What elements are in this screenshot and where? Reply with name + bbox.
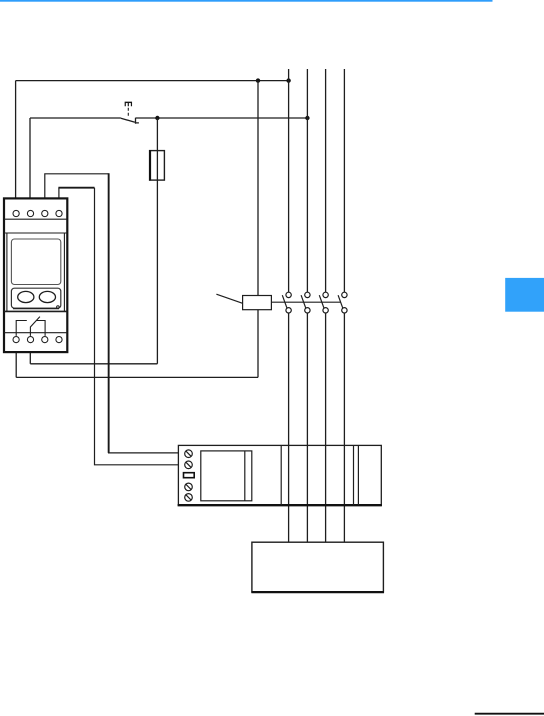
- contactor contact 1: [282, 292, 291, 313]
- wire L supply top: [16, 80, 289, 82]
- wire timer terminal 4 riser: [58, 188, 60, 198]
- timer relay contact NO side: [36, 321, 45, 336]
- timer terminal A2: [27, 337, 33, 343]
- PSU divider 3: [357, 445, 359, 505]
- timer top terminal row separator: [4, 218, 67, 220]
- contactor linkage line: [271, 301, 340, 303]
- PSU bottom thick edge: [178, 504, 382, 506]
- contactor coil pointer line: [216, 294, 242, 303]
- wire switched line right segment: [136, 117, 308, 119]
- switch S1 actuator dashed link: [127, 108, 129, 118]
- node junction fuse branch: [155, 116, 159, 120]
- contactor contact 2: [301, 292, 310, 313]
- fuse F1 left thick edge: [149, 150, 151, 181]
- contactor contact 3: [319, 292, 328, 313]
- wire load L2: [306, 313, 308, 542]
- timer U1 body: [4, 198, 67, 352]
- node junction coil branch: [256, 78, 260, 82]
- load box bottom thick edge: [251, 591, 384, 593]
- wire left drop to timer terminal 1: [15, 81, 17, 199]
- PSU screw terminal 1: [185, 450, 193, 458]
- timer relay contact NC side: [16, 321, 27, 336]
- wire phase L1: [288, 69, 290, 292]
- wire return to timer terminal A1: [16, 376, 258, 378]
- PSU screw terminal 4: [185, 494, 193, 502]
- page header blue bar: [0, 0, 493, 2]
- load box: [252, 542, 384, 592]
- switch S1 fixed contact tick: [136, 118, 139, 124]
- label m manual actuator: [125, 103, 131, 106]
- timer terminal 3: [42, 210, 48, 216]
- timer button 1: [18, 291, 34, 302]
- timer terminal 4: [56, 210, 62, 216]
- timer terminal 2: [27, 210, 33, 216]
- wire load L3: [325, 313, 327, 542]
- wire fuse to timer terminal A2: [30, 363, 157, 365]
- wire phase N: [343, 69, 345, 292]
- timer relay section separator: [4, 310, 67, 312]
- wire fuse branch: [156, 118, 158, 364]
- PSU U2 body: [178, 445, 381, 505]
- PSU screw terminal 2: [185, 461, 193, 469]
- wire switched line: [30, 117, 121, 119]
- PSU screw terminal 3: [185, 483, 193, 491]
- timer reset button: [57, 306, 60, 309]
- timer top band separator: [4, 232, 67, 234]
- wire coil bottom return: [257, 310, 259, 378]
- contactor coil K1: [243, 296, 272, 310]
- timer button panel: [11, 288, 60, 308]
- fuse F1: [150, 151, 165, 181]
- PSU divider 1: [280, 445, 282, 505]
- timer terminal 15: [42, 337, 48, 343]
- node junction phase L2: [305, 116, 309, 120]
- timer terminal 1: [13, 210, 19, 216]
- wire phase L3: [325, 69, 327, 292]
- timer button 2: [39, 291, 55, 302]
- PSU module window: [201, 451, 252, 501]
- wire timer terminal A2 drop: [29, 352, 31, 364]
- wire coil branch: [257, 81, 259, 296]
- wire timer terminal A1 drop: [15, 352, 17, 377]
- wire load L1: [288, 313, 290, 542]
- wire timer terminal 3 riser: [45, 174, 109, 198]
- side tab blue marker: [505, 278, 544, 312]
- PSU indicator window: [184, 473, 195, 478]
- wire load N: [343, 313, 345, 542]
- wire terminal 4 top run: [58, 187, 94, 189]
- wire terminal 3 into PSU in 1: [108, 452, 178, 454]
- timer terminal A1: [13, 337, 19, 343]
- timer terminal 18: [56, 337, 62, 343]
- wire phase L2: [306, 69, 308, 292]
- timer face left edge: [6, 233, 8, 311]
- wire left drop to timer terminal 2: [29, 118, 31, 199]
- PSU divider 2: [353, 445, 355, 505]
- wire terminal 4 down run: [95, 188, 179, 465]
- switch S1 blade: [121, 118, 135, 122]
- timer relay pole and blade: [30, 317, 40, 336]
- node junction phase L1: [286, 78, 290, 82]
- timer bottom terminal separator: [4, 332, 67, 334]
- PSU module window inner line: [244, 451, 246, 501]
- contactor contact 4: [338, 292, 347, 313]
- wire terminal 3 down run: [108, 173, 110, 453]
- timer display: [11, 239, 60, 285]
- footer rule: [475, 713, 544, 715]
- timer face right edge: [63, 233, 65, 311]
- timer button panel shadow: [13, 308, 59, 310]
